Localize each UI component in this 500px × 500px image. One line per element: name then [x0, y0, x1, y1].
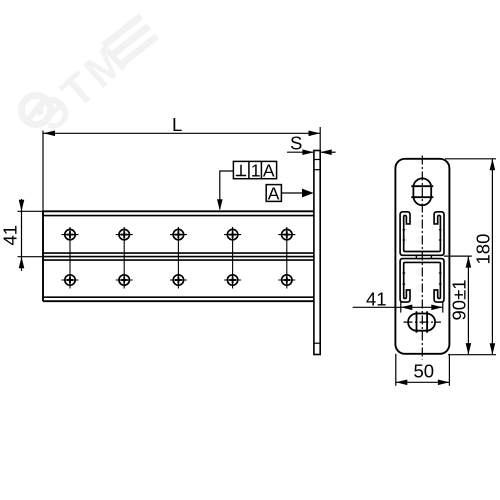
arm middle line 1	[43, 252, 314, 254]
hole column centerlines	[70, 227, 287, 289]
L extension line left	[42, 131, 44, 211]
ext right	[442, 302, 444, 313]
hole r1c2	[116, 229, 133, 239]
hole r1c5	[278, 229, 295, 239]
180 arrow bottom	[490, 343, 496, 355]
channel wall notch ticks	[403, 230, 442, 284]
41 arrow top	[19, 200, 25, 212]
41r arrow left	[401, 305, 413, 311]
arm top inner line	[43, 215, 314, 217]
frame box	[233, 161, 276, 178]
50 arrow left	[396, 380, 408, 386]
41 extension bottom	[18, 256, 44, 258]
bottom hole chord right	[426, 311, 428, 332]
arm middle line 3	[43, 259, 314, 261]
L arrow right	[309, 131, 321, 137]
S arrow left	[302, 149, 314, 155]
50 arrow right	[438, 380, 450, 386]
41 dimension line vertical	[21, 199, 23, 271]
dim line	[467, 256, 469, 355]
ext left	[400, 302, 402, 313]
dim line	[491, 159, 493, 355]
S arrow right	[320, 149, 332, 155]
fcf leader	[220, 171, 234, 209]
hole r2c1	[62, 275, 79, 285]
L extension line right	[319, 127, 321, 151]
ext left	[395, 354, 397, 386]
svg-text:A: A	[268, 183, 280, 203]
weld tab left	[415, 255, 417, 259]
arm middle line 2	[43, 256, 314, 258]
svg-text:180: 180	[473, 234, 494, 265]
datum leader	[281, 192, 302, 194]
arm bottom outer line	[43, 300, 314, 302]
S dim line right segment	[320, 151, 335, 153]
arm bottom inner line	[43, 296, 314, 298]
bottom obround hole	[408, 314, 435, 331]
holes: 2 rows x 5 cols	[62, 227, 296, 289]
perpendicularity symbol	[240, 165, 242, 176]
svg-text:A: A	[263, 160, 275, 180]
hole r2c3	[170, 275, 187, 285]
90 arrow bottom	[466, 343, 472, 355]
datum box	[266, 185, 281, 202]
watermark ЭТМ logo	[22, 16, 158, 141]
band tick top1	[314, 159, 320, 161]
dim line	[353, 306, 443, 308]
ext bottom	[448, 354, 496, 356]
ext right	[448, 354, 450, 386]
hole r2c4	[224, 275, 241, 285]
plate edge band	[314, 151, 320, 355]
hole r1c3	[170, 229, 187, 239]
dim line	[396, 381, 450, 383]
ext top	[445, 158, 496, 160]
L arrow left	[44, 131, 56, 137]
hole r1c4	[224, 229, 241, 239]
weld tab right	[430, 255, 432, 259]
arm left edge	[42, 211, 44, 301]
bottom hole horizontal centerline	[404, 321, 442, 323]
svg-text:1: 1	[251, 160, 261, 180]
S dim line left segment	[287, 151, 314, 153]
top hole chord lower	[411, 196, 433, 198]
lower channel cross-section (mirrored)	[400, 259, 444, 303]
hole r2c5	[278, 275, 295, 285]
plate outline	[395, 159, 449, 354]
svg-text:41: 41	[0, 225, 21, 246]
top obround hole	[413, 178, 431, 205]
svg-text:L: L	[172, 114, 182, 135]
ext middle	[444, 255, 472, 257]
41 extension top	[18, 210, 44, 212]
upper channel cross-section	[400, 212, 444, 256]
plate vertical centerline	[421, 156, 423, 360]
hole r1c1	[62, 229, 79, 239]
90 arrow top	[466, 256, 472, 268]
bottom hole chord left	[416, 311, 418, 332]
top hole chord upper	[411, 185, 433, 187]
hole r2c2	[116, 275, 133, 285]
svg-text:S: S	[290, 133, 302, 154]
fcf leader arrow	[217, 199, 223, 211]
band tick bottom	[314, 342, 320, 344]
41 arrow bottom	[19, 257, 25, 269]
arm top outer line	[43, 210, 314, 212]
svg-text:41: 41	[366, 288, 387, 309]
svg-text:90±1: 90±1	[449, 279, 470, 320]
180 arrow top	[490, 159, 496, 171]
L dimension line	[44, 132, 321, 134]
band tick top2	[314, 169, 320, 171]
41r arrow right	[431, 305, 443, 311]
svg-text:50: 50	[414, 361, 435, 382]
datum triangle	[302, 189, 314, 198]
